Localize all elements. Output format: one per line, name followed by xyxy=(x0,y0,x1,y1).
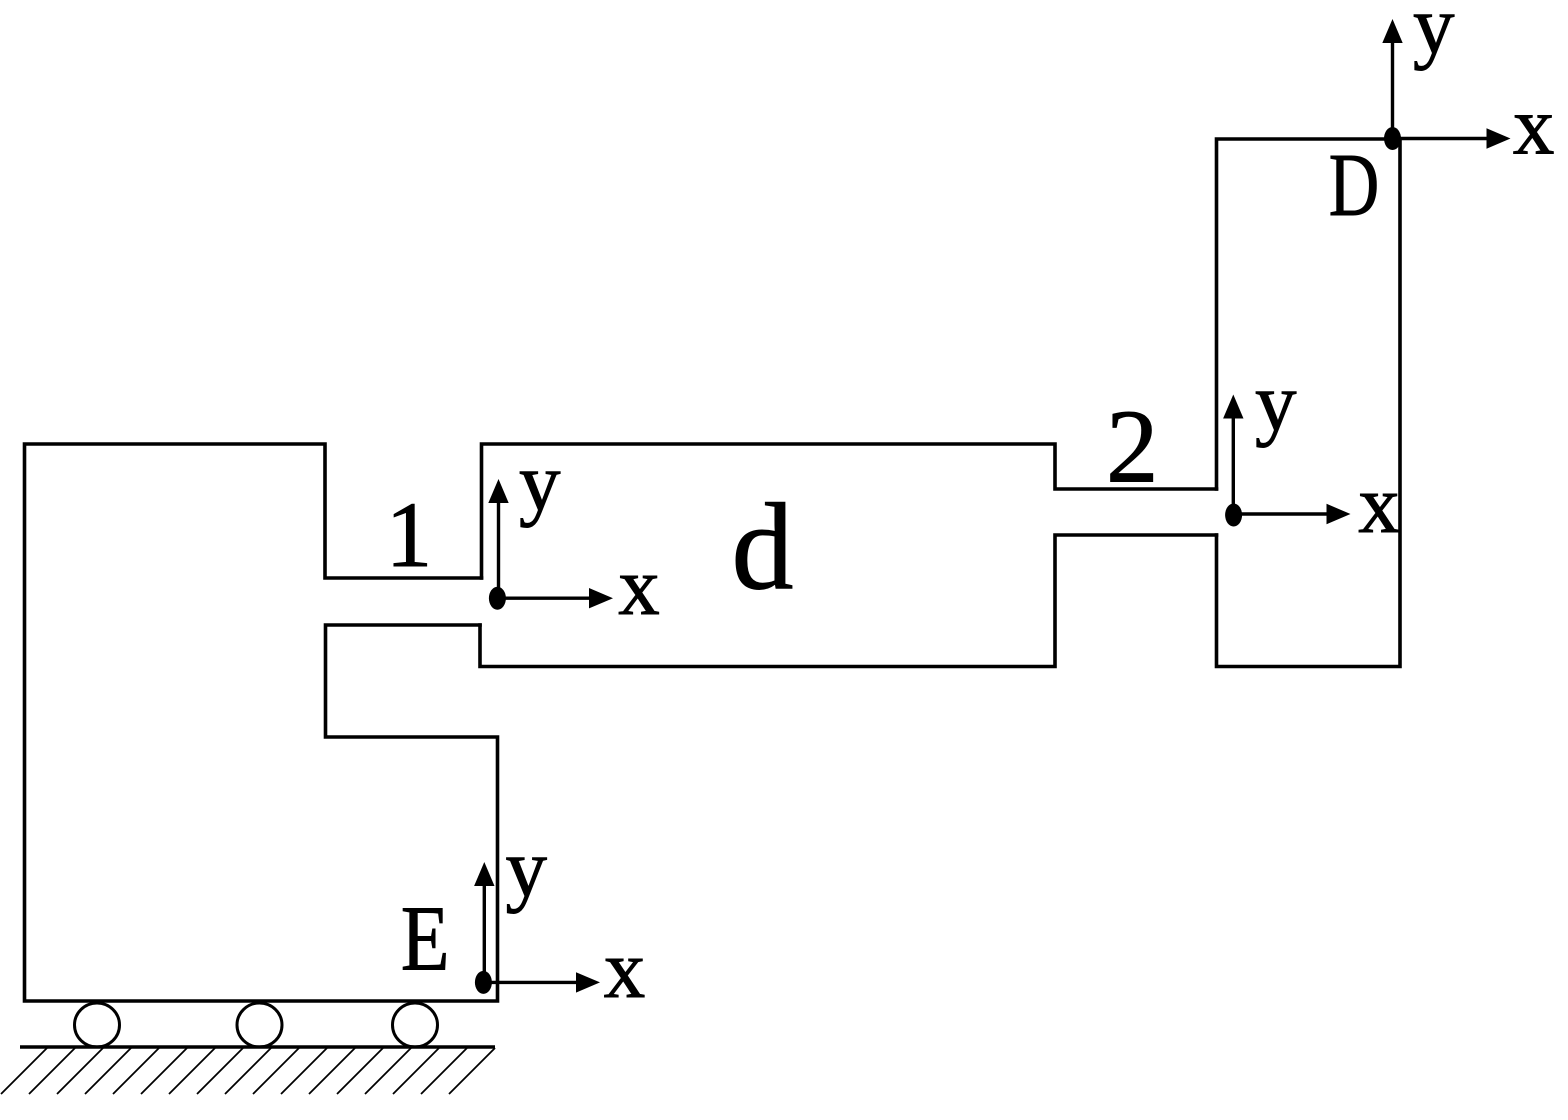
svg-text:D: D xyxy=(1329,136,1380,235)
svg-text:2: 2 xyxy=(1106,388,1159,505)
svg-text:E: E xyxy=(401,888,450,991)
svg-text:y: y xyxy=(1255,356,1297,448)
frame D y-axis xyxy=(1382,19,1402,139)
hatching xyxy=(1,1048,495,1094)
body d (horizontal ram outline) xyxy=(480,444,1217,667)
frame 1 y-axis xyxy=(488,479,508,598)
frame 2 x-axis xyxy=(1234,504,1351,524)
wheel 2 xyxy=(237,1003,282,1047)
wheel 3 xyxy=(393,1003,438,1047)
frame 1 origin dot (joint 1) xyxy=(489,587,506,610)
frame D origin dot xyxy=(1384,127,1401,150)
frame 1 x-axis xyxy=(497,588,613,608)
body D (vertical slider block outline) xyxy=(1217,139,1401,667)
svg-text:x: x xyxy=(1513,79,1555,171)
body E (left column block outline) xyxy=(25,444,498,1001)
frame D x-axis xyxy=(1393,128,1511,148)
svg-text:y: y xyxy=(506,822,548,914)
wheel 1 xyxy=(75,1003,120,1047)
ground line xyxy=(20,1045,495,1049)
frame 2 y-axis xyxy=(1223,395,1243,516)
svg-text:d: d xyxy=(732,479,794,616)
frame E y-axis xyxy=(474,862,494,982)
svg-text:x: x xyxy=(604,923,646,1015)
svg-text:y: y xyxy=(1413,0,1455,71)
frame 2 origin dot (joint 2) xyxy=(1225,504,1242,527)
svg-text:x: x xyxy=(1358,458,1400,550)
svg-text:x: x xyxy=(618,540,660,632)
frame E origin dot xyxy=(475,971,492,994)
svg-text:1: 1 xyxy=(386,484,433,587)
svg-text:y: y xyxy=(519,436,561,528)
frame E x-axis xyxy=(483,972,600,992)
